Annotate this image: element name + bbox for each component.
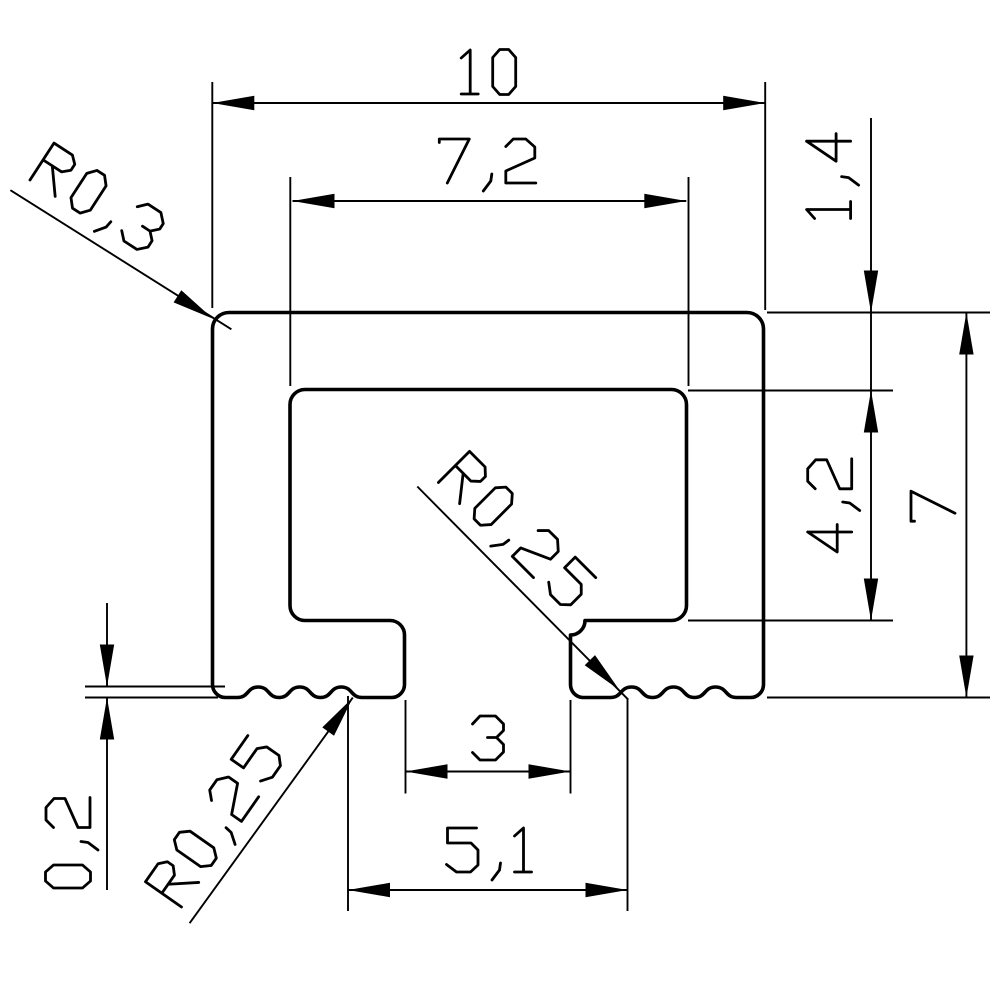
arrow 1,4 down — [864, 271, 878, 313]
dim text 1,4 — [807, 134, 859, 219]
leader arrow R0,25 bottom — [322, 698, 353, 736]
dim line 7,2 — [293, 200, 687, 202]
ext line 5,1 right — [627, 699, 629, 911]
arrow 10 left — [212, 96, 254, 110]
leader arrow R0,3 — [174, 290, 213, 319]
arrow 10 right — [723, 96, 765, 110]
ext line 7,2 left — [289, 177, 291, 386]
dim text 4,2 — [808, 459, 860, 552]
ext line bottom right — [767, 697, 990, 699]
dim text 0,2 — [46, 798, 99, 889]
dim text 5,1 — [447, 828, 532, 880]
arrow 3 left — [406, 764, 448, 778]
leader R0,25 bottom — [190, 698, 353, 924]
radius label R0,3 — [26, 143, 168, 261]
arrow 7,2 left — [293, 194, 335, 208]
dim line 3 — [406, 771, 571, 773]
arrow 3 right — [529, 764, 571, 778]
dim line 0,2 lower — [106, 698, 108, 891]
dim line 1,4 lower — [870, 313, 872, 391]
dim line 0,2 upper — [106, 603, 108, 687]
ext line 5,1 left — [347, 696, 349, 911]
arrow 7 down — [959, 656, 973, 698]
ext line cavity bottom right — [688, 620, 893, 622]
ext line 0,2 base — [85, 697, 218, 699]
ext line 7,2 right — [688, 177, 690, 386]
dim text 7,2 — [439, 139, 536, 191]
dim text 10 — [461, 50, 516, 95]
arrow 5,1 left — [348, 883, 390, 897]
leader R0,3 — [10, 190, 231, 329]
arrow 7 up — [959, 313, 973, 355]
radius label R0,25 bottom — [145, 734, 291, 912]
arrow 0,2 down — [100, 645, 114, 687]
radius label R0,25 center — [433, 451, 597, 615]
profile outline — [213, 313, 764, 698]
leader R0,25 center — [417, 487, 628, 700]
dim text 3 — [473, 716, 504, 760]
ext line 3 left — [405, 700, 407, 794]
dim line 5,1 — [348, 889, 628, 891]
arrow 7,2 right — [644, 194, 686, 208]
dim text 7 — [911, 491, 955, 521]
ext line 0,2 crest — [85, 686, 225, 688]
ext line 10 left — [211, 82, 213, 308]
dim line 1,4 upper — [870, 118, 872, 313]
dim line 4,2 — [870, 391, 872, 621]
leader arrow R0,25 center — [585, 655, 620, 690]
dim line 7 — [965, 313, 967, 698]
ext line 10 right — [764, 82, 766, 310]
arrow 5,1 right — [586, 883, 628, 897]
arrow 4,2 up — [864, 391, 878, 433]
dim line 10 — [212, 102, 765, 104]
arrow 4,2 down — [864, 579, 878, 621]
ext line 3 right — [570, 700, 572, 794]
ext line top edge right — [767, 312, 990, 314]
arrow 0,2 up — [100, 698, 114, 740]
ext line cavity top right — [688, 390, 893, 392]
